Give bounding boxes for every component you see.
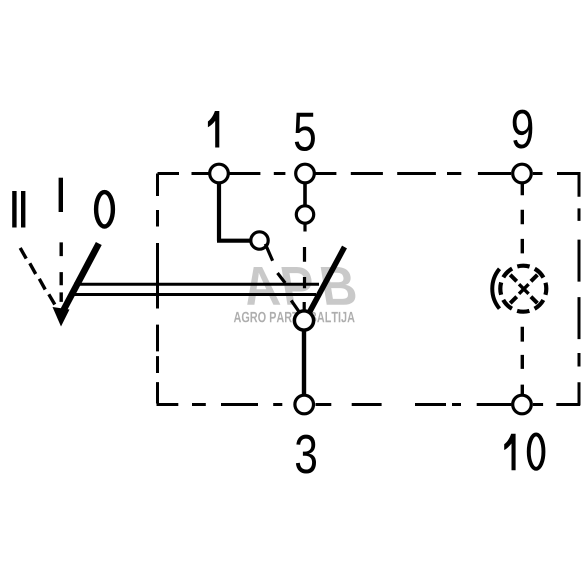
switch body outline, left edge [156, 174, 159, 404]
indicator lamp (dashed circle) [500, 266, 546, 312]
contact stud for position I (circle) [296, 206, 313, 223]
terminal label 9 [513, 110, 533, 149]
terminal 3 [295, 395, 314, 414]
terminal 10 [513, 395, 532, 414]
pivot contact (circle) [294, 311, 313, 330]
contact stud for position II (circle) [251, 232, 268, 249]
switch body outline (dashed rectangle), top edge [158, 172, 581, 175]
actuator lever arrowhead [53, 307, 70, 327]
position label 0 [96, 192, 113, 226]
terminal label 1 [208, 111, 219, 148]
actuator lever [63, 244, 99, 313]
lamp spokes [510, 275, 537, 303]
terminal 1 [210, 164, 229, 183]
dashed travel line, stud I to pivot [303, 224, 307, 310]
dashed travel line, stud II to pivot [265, 244, 298, 311]
terminal label 3 [296, 435, 316, 474]
switch body outline, right edge [578, 174, 581, 406]
dashed wire terminal 9 to lamp [521, 184, 524, 253]
lamp cross (X) [519, 284, 529, 294]
moving contact arm (position 0) [309, 247, 345, 314]
terminal 5 [296, 164, 315, 183]
terminal label 10 [504, 434, 515, 471]
dashed travel line for position I (outside) [60, 242, 63, 302]
terminal 9 [513, 164, 532, 183]
switch body outline, bottom edge [157, 403, 581, 406]
wire pivot to terminal 3 [302, 331, 306, 396]
terminal label 5 [295, 113, 315, 151]
dashed travel line for position II (outside) [20, 248, 55, 305]
lamp lens arc [492, 269, 499, 309]
wire terminal 1 to contact stud [217, 182, 250, 241]
linkage rod (double line) [74, 284, 319, 294]
position label II [12, 191, 16, 228]
watermark APB logo [234, 267, 356, 322]
dashed wire lamp to terminal 10 [521, 327, 524, 395]
wire terminal 5 to contact stud [303, 182, 307, 206]
position label I [59, 178, 63, 212]
